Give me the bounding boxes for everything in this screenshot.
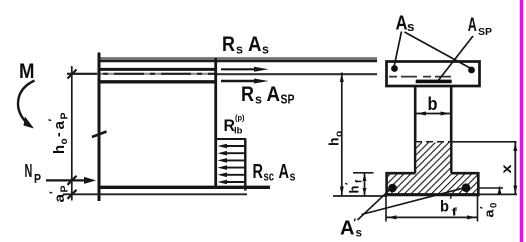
dim tick at bottom line [68, 190, 77, 199]
x dimension line [514, 142, 516, 195]
svg-text:sc: sc [264, 170, 275, 184]
svg-text:A: A [267, 83, 281, 106]
beam section left edge [98, 53, 101, 202]
rebar dot As left [391, 65, 398, 72]
lower reference line [63, 193, 247, 195]
b'f dimension [385, 196, 387, 222]
x dimension bottom line [479, 193, 518, 195]
top fiber line (gray, spans both figures) [99, 57, 377, 60]
svg-text:s: s [255, 92, 262, 107]
break tick on left edge [92, 132, 107, 138]
svg-text:′: ′ [47, 119, 59, 122]
svg-text:P: P [59, 185, 71, 192]
svg-text:s: s [290, 170, 296, 184]
tendon bar Asp [416, 80, 452, 84]
beam section right edge [214, 58, 217, 186]
svg-text:N: N [25, 161, 33, 181]
moment arrow [18, 81, 35, 122]
svg-text:s: s [407, 19, 415, 34]
bottom flange outline [385, 172, 479, 195]
leader As to left dot [394, 32, 401, 67]
svg-text:h: h [347, 185, 362, 193]
hatched compression zone web part [416, 143, 450, 174]
svg-text:f: f [452, 207, 458, 219]
svg-text:s: s [236, 42, 243, 57]
rebar dot A's right [462, 183, 471, 192]
a0 dimension [499, 187, 501, 195]
top flange [387, 62, 480, 87]
leader Asp to tendon bar [438, 36, 474, 82]
top reinforcement line 2 [100, 80, 216, 83]
rotated label h'f [344, 179, 365, 194]
svg-text:o: o [59, 138, 70, 144]
stress block top line [216, 138, 246, 140]
svg-text:s: s [262, 42, 269, 57]
svg-text:lb: lb [234, 126, 243, 137]
rotated label h0 [326, 131, 346, 146]
svg-text:h: h [326, 138, 342, 147]
rotated label x [498, 164, 514, 173]
h'f extension tick [353, 172, 374, 174]
arrow Rs Asp [221, 80, 256, 82]
svg-text:A: A [279, 161, 290, 183]
leader A's to right dot [362, 188, 463, 214]
stress block right edge [244, 139, 246, 191]
svg-text:R: R [253, 161, 264, 183]
arrow Rs As [221, 68, 256, 70]
rebar dot A's left [388, 184, 397, 193]
beam top edge line (black, spans to right figure) [98, 60, 377, 63]
force arrow NP [46, 179, 86, 181]
dim tick at neutral axis [68, 70, 77, 79]
x dimension top line [452, 141, 517, 143]
svg-text:b: b [440, 199, 449, 216]
hatched bottom flange [388, 173, 478, 194]
svg-text:′: ′ [450, 195, 453, 207]
svg-text:-: - [50, 132, 66, 137]
web left edge [414, 87, 417, 174]
svg-text:A: A [248, 33, 262, 56]
rotated label a0 [479, 203, 500, 218]
dimension line h0 - a'P [71, 66, 73, 201]
svg-text:P: P [59, 112, 71, 119]
dim tick at NP level [68, 176, 77, 185]
svg-text:A: A [468, 15, 477, 36]
rebar dot As right [468, 67, 475, 74]
compression zone boundary (dashed) [415, 141, 452, 143]
svg-text:R: R [241, 83, 254, 106]
svg-text:0: 0 [489, 203, 500, 208]
bottom extension line [333, 195, 387, 197]
svg-text:s: s [356, 226, 363, 240]
top reinforcement line 1 [100, 68, 216, 71]
dash line inside flange [389, 76, 452, 78]
svg-text:f: f [354, 179, 365, 183]
svg-text:x: x [498, 164, 514, 173]
svg-text:SP: SP [281, 92, 295, 107]
stress block arrow lines [226, 146, 245, 182]
svg-text:P: P [34, 172, 41, 186]
svg-text:SP: SP [478, 26, 492, 38]
svg-text:A: A [396, 13, 408, 35]
beam bottom edge (thick) [98, 186, 271, 189]
h0 dimension line [341, 73, 343, 196]
web right edge [450, 87, 453, 174]
svg-text:o: o [334, 131, 345, 137]
leader As to right dot [405, 32, 471, 68]
leader A's to left dot [358, 189, 392, 221]
svg-text:A: A [340, 218, 355, 240]
svg-text:R: R [222, 33, 235, 56]
svg-text:b: b [428, 94, 438, 114]
svg-text:h: h [51, 145, 68, 154]
magenta border line [520, 0, 523, 242]
rotated label a'P [48, 185, 71, 202]
svg-text:(p): (p) [235, 113, 245, 123]
neutral axis dash-dot line [67, 73, 216, 75]
rotated label h0 - a'P [47, 112, 71, 154]
h'f dimension line [364, 173, 366, 196]
svg-text:M: M [19, 60, 35, 83]
b dimension [416, 113, 452, 115]
